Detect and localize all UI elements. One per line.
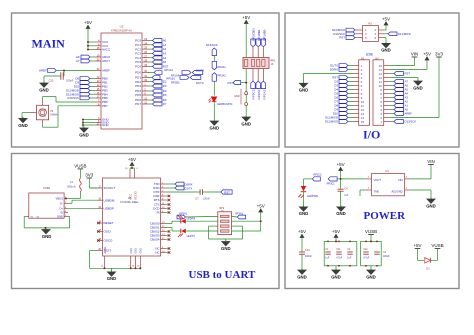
svg-text:RST: RST	[339, 36, 345, 40]
svg-text:USB to UART: USB to UART	[189, 269, 257, 281]
svg-text:GND: GND	[426, 203, 436, 208]
svg-text:D11/MOSI: D11/MOSI	[398, 32, 411, 36]
svg-text:D2: D2	[163, 80, 167, 84]
svg-text:VBUS: VBUS	[56, 197, 64, 201]
svg-text:D13/SCK: D13/SCK	[67, 96, 79, 100]
svg-text:VUSB: VUSB	[431, 243, 443, 248]
svg-text:TAB: TAB	[374, 190, 379, 194]
svg-text:RP3C1: RP3C1	[327, 182, 336, 185]
svg-text:C11: C11	[336, 249, 341, 251]
svg-text:GND: GND	[299, 211, 309, 216]
svg-text:GND: GND	[57, 215, 63, 219]
svg-text:GND: GND	[107, 276, 117, 281]
svg-text:RI: RI	[157, 211, 160, 215]
svg-text:AVCC: AVCC	[102, 48, 111, 52]
svg-text:RTS: RTS	[154, 198, 160, 202]
svg-text:GND: GND	[297, 274, 307, 279]
svg-text:D+: D+	[59, 206, 63, 210]
svg-text:GND: GND	[102, 123, 110, 127]
svg-text:OSCI: OSCI	[104, 230, 112, 234]
svg-text:+5V: +5V	[423, 52, 431, 57]
svg-text:1uF: 1uF	[325, 258, 330, 260]
svg-text:I/O: I/O	[363, 127, 380, 141]
svg-text:RP2C2: RP2C2	[251, 89, 255, 99]
svg-text:PD0: PD0	[135, 71, 141, 75]
svg-text:VCCIO: VCCIO	[133, 190, 137, 200]
svg-text:VUSB: VUSB	[74, 163, 86, 168]
svg-text:VIN: VIN	[398, 178, 403, 182]
svg-text:GND: GND	[135, 248, 138, 254]
svg-text:PD2: PD2	[135, 80, 141, 84]
svg-text:GND: GND	[18, 123, 28, 128]
svg-text:A7: A7	[76, 59, 80, 63]
svg-text:GND: GND	[413, 85, 423, 90]
svg-text:1K: 1K	[271, 63, 274, 66]
svg-text:VOUT: VOUT	[374, 178, 382, 182]
svg-text:GND: GND	[299, 88, 309, 93]
svg-text:LEDTX: LEDTX	[187, 234, 196, 238]
svg-text:D1/TX: D1/TX	[196, 81, 204, 85]
svg-text:RP3C2: RP3C2	[313, 174, 322, 177]
svg-text:D13: D13	[251, 28, 255, 33]
svg-text:D1: D1	[426, 267, 430, 271]
svg-text:RST: RST	[224, 190, 230, 194]
svg-text:NC: NC	[155, 251, 159, 255]
svg-text:GND: GND	[241, 121, 251, 126]
svg-text:RP1B1: RP1B1	[166, 77, 175, 81]
svg-text:PD3: PD3	[135, 84, 141, 88]
svg-text:D0/RX: D0/RX	[185, 183, 193, 187]
svg-text:RP2A2: RP2A2	[218, 74, 227, 78]
svg-text:GND: GND	[381, 48, 391, 53]
svg-text:GND: GND	[331, 274, 341, 279]
svg-text:LEDPWR: LEDPWR	[307, 194, 318, 198]
svg-text:D13/SCK: D13/SCK	[405, 120, 417, 124]
svg-text:C14: C14	[305, 249, 310, 252]
svg-text:X1: X1	[50, 109, 54, 113]
svg-text:+5V: +5V	[84, 20, 92, 25]
svg-text:RP1B2: RP1B2	[257, 89, 261, 99]
svg-text:VIN: VIN	[427, 159, 435, 164]
svg-text:USB: USB	[366, 52, 374, 56]
svg-text:RP2: RP2	[219, 207, 224, 210]
svg-text:F1: F1	[70, 180, 74, 184]
svg-text:C12: C12	[363, 249, 368, 251]
svg-text:D1/TX: D1/TX	[185, 187, 193, 191]
svg-text:D12/MISO: D12/MISO	[325, 120, 339, 124]
svg-text:POWER: POWER	[364, 210, 407, 222]
svg-text:A5: A5	[163, 60, 167, 64]
svg-text:RESET: RESET	[104, 221, 114, 225]
svg-text:CBUS4: CBUS4	[150, 238, 160, 242]
svg-text:PD5: PD5	[135, 93, 141, 97]
svg-text:LEDBUILTIN: LEDBUILTIN	[217, 102, 232, 106]
svg-text:RST: RST	[163, 65, 169, 69]
svg-text:D0/RX: D0/RX	[196, 68, 204, 72]
svg-text:AGND: AGND	[104, 246, 107, 253]
svg-text:4.7uF: 4.7uF	[336, 258, 342, 260]
svg-text:+5V: +5V	[298, 229, 306, 234]
svg-text:GND: GND	[221, 246, 231, 251]
svg-text:100nF: 100nF	[203, 198, 210, 201]
svg-text:100nF: 100nF	[383, 256, 390, 258]
svg-text:AREF: AREF	[39, 69, 47, 73]
svg-text:D1: D1	[257, 29, 261, 33]
svg-text:H3: H3	[368, 22, 372, 26]
svg-text:RP1A2: RP1A2	[262, 89, 266, 99]
svg-text:D0/RX: D0/RX	[330, 68, 338, 72]
svg-text:VUSB: VUSB	[365, 229, 377, 234]
svg-text:4.7uF: 4.7uF	[363, 258, 369, 260]
svg-text:+5V: +5V	[242, 15, 250, 20]
svg-text:100nF: 100nF	[66, 79, 74, 83]
svg-text:USB2: USB2	[43, 186, 51, 190]
svg-text:D-: D-	[60, 201, 63, 205]
svg-text:RST: RST	[405, 72, 411, 76]
svg-text:D3: D3	[163, 84, 167, 88]
svg-text:+5V: +5V	[337, 162, 345, 167]
svg-text:RP1B2: RP1B2	[171, 81, 180, 85]
svg-text:ATMEGA328P-AU: ATMEGA328P-AU	[111, 29, 132, 33]
svg-text:PC6: PC6	[135, 65, 141, 69]
svg-text:OSCO: OSCO	[104, 239, 114, 243]
svg-text:RP2A1: RP2A1	[218, 65, 227, 69]
svg-text:D7: D7	[163, 102, 167, 106]
svg-text:GND: GND	[39, 87, 49, 92]
svg-text:GND: GND	[139, 248, 142, 254]
svg-text:ADC7: ADC7	[102, 59, 110, 63]
svg-text:GND: GND	[42, 234, 52, 239]
svg-text:1: 1	[380, 120, 382, 124]
svg-text:ID: ID	[60, 211, 63, 215]
svg-text:PD7: PD7	[135, 102, 141, 106]
svg-text:GND: GND	[79, 132, 89, 137]
svg-text:GND: GND	[336, 211, 346, 216]
svg-text:GND: GND	[366, 274, 376, 279]
svg-text:RST: RST	[228, 81, 234, 85]
svg-text:ADJ/GND: ADJ/GND	[392, 191, 403, 194]
svg-text:USBDM: USBDM	[104, 198, 115, 202]
svg-text:C13: C13	[49, 79, 54, 83]
svg-text:PB7: PB7	[102, 104, 108, 108]
svg-text:GND: GND	[130, 248, 133, 254]
svg-text:U3: U3	[385, 169, 389, 173]
svg-text:LEDRX: LEDRX	[187, 217, 196, 221]
svg-text:3V3OUT: 3V3OUT	[104, 186, 116, 190]
svg-text:AREF: AREF	[405, 112, 413, 116]
svg-text:USBDP: USBDP	[104, 207, 114, 211]
svg-text:VCC: VCC	[129, 193, 133, 200]
svg-text:D13/SCK: D13/SCK	[206, 43, 218, 47]
svg-text:AREF: AREF	[102, 69, 110, 73]
svg-text:1uF: 1uF	[347, 258, 352, 260]
svg-text:+5V: +5V	[257, 204, 265, 209]
svg-text:U2: U2	[120, 25, 124, 29]
svg-text:GND: GND	[210, 125, 220, 130]
svg-text:500mA: 500mA	[67, 184, 76, 188]
svg-text:+5V: +5V	[413, 243, 421, 248]
svg-text:15: 15	[361, 120, 365, 124]
svg-text:VIN: VIN	[411, 52, 419, 57]
svg-text:+5V: +5V	[128, 157, 136, 162]
svg-text:1uF: 1uF	[344, 194, 349, 197]
svg-text:+5V: +5V	[332, 229, 340, 234]
svg-text:MAIN: MAIN	[32, 36, 66, 50]
svg-text:D5: D5	[163, 93, 167, 97]
svg-text:+5V: +5V	[382, 17, 390, 22]
svg-text:D0: D0	[262, 29, 266, 33]
svg-text:GND: GND	[234, 95, 240, 98]
svg-text:3V3: 3V3	[435, 52, 444, 57]
svg-text:PC5: PC5	[135, 60, 141, 64]
svg-text:3V3: 3V3	[85, 173, 94, 178]
svg-text:100nF: 100nF	[305, 255, 312, 258]
